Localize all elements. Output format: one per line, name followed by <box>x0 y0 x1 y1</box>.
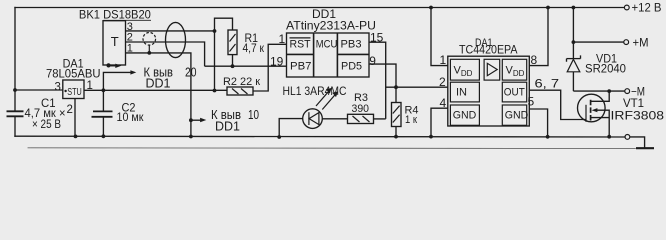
node junction VDD <box>213 29 217 33</box>
svg-text:RST: RST <box>290 39 311 51</box>
capacitor C1 4,7uF 25V <box>7 98 66 131</box>
svg-text:+12 В: +12 В <box>632 1 662 15</box>
svg-text:10: 10 <box>248 108 259 122</box>
wire DA1 input from +12 rail <box>15 89 63 91</box>
wire DD1 pin9 PD5 <box>369 64 396 102</box>
resistor R2 22k <box>223 44 287 95</box>
MCU DD1 ATtiny2313A-PU <box>270 7 384 77</box>
driver DA1 TC4420EPA <box>439 37 559 126</box>
svg-text:HL1 3AR4MC: HL1 3AR4MC <box>283 84 347 98</box>
svg-text:1 к: 1 к <box>405 114 417 126</box>
diode VD1 SR2040 <box>567 6 627 92</box>
svg-text:T: T <box>111 34 119 49</box>
wire +12V top rail <box>15 7 624 9</box>
wire left vertical +12V feed <box>14 8 16 112</box>
drain lead <box>591 91 610 101</box>
wire R2 to RST DD1 pin 1 <box>253 44 287 91</box>
svg-text:390: 390 <box>352 103 370 115</box>
resistor R1 4,7k <box>228 30 265 68</box>
svg-text:PB7: PB7 <box>290 61 312 73</box>
capacitor C2 10uF <box>92 90 145 138</box>
svg-text:9: 9 <box>369 54 376 68</box>
resistor R4 1k <box>392 103 419 139</box>
svg-text:1: 1 <box>440 53 447 67</box>
output terminal -M <box>573 84 645 98</box>
svg-text:PD5: PD5 <box>341 61 362 73</box>
svg-text:MCU: MCU <box>316 39 338 51</box>
wire sensor pin2 DQ <box>126 42 205 66</box>
svg-text:IRF3808: IRF3808 <box>611 110 665 122</box>
wire DD1 pin15 PB3 down to R3 node <box>369 42 386 119</box>
wire PB3/PD5 node to TC4420 IN <box>386 86 448 88</box>
wire TC4420 pin1 VDD to +12 rail <box>431 8 448 66</box>
svg-text:OUT: OUT <box>504 86 525 98</box>
wire LED cathode to ground <box>279 119 303 137</box>
wire TC4420 OUT pins 6,7 to VT1 gate <box>529 90 586 119</box>
LED HL1 3AR4MC <box>277 84 347 139</box>
svg-text:6, 7: 6, 7 <box>535 76 560 90</box>
svg-text:8: 8 <box>531 53 538 67</box>
svg-text:10 мк: 10 мк <box>117 112 145 124</box>
svg-text:78L05ABU: 78L05ABU <box>46 67 101 81</box>
gate bar <box>585 105 587 122</box>
wire jog to R1 top <box>215 18 233 31</box>
svg-text:IN: IN <box>456 86 467 98</box>
svg-text:DD1: DD1 <box>146 76 171 90</box>
body arrow lead <box>597 110 610 137</box>
svg-text:BK1 DS18B20: BK1 DS18B20 <box>79 8 151 22</box>
wire sensor pin3 VDD <box>126 30 215 32</box>
svg-text:−M: −M <box>631 84 645 98</box>
output terminal +12 В <box>624 1 661 15</box>
svg-text:2: 2 <box>67 104 73 116</box>
svg-text:PB3: PB3 <box>341 39 362 51</box>
svg-text:4,7 к: 4,7 к <box>243 43 265 55</box>
svg-text:× 25 В: × 25 В <box>32 119 61 131</box>
ground output terminal and earth symbol <box>625 135 654 149</box>
svg-text:VT1: VT1 <box>623 98 644 110</box>
wire VDD down to R2 line <box>214 31 216 91</box>
svg-text:3: 3 <box>55 82 61 94</box>
MOSFET VT1 IRF3808 <box>578 91 665 139</box>
svg-text:DD1: DD1 <box>215 120 240 134</box>
wire faint separator line bottom <box>28 147 645 150</box>
channel segments <box>590 100 592 121</box>
wire TC4420 pin8 VDD to +12 rail <box>529 8 548 66</box>
svg-text:SR2040: SR2040 <box>585 64 626 76</box>
temperature sensor BK1 DS18B20 <box>79 8 151 68</box>
cable bundle ellipse <box>166 22 186 57</box>
net arrow К выв 20 DD1 <box>103 65 196 90</box>
svg-text:4,7 мк ×: 4,7 мк × <box>25 108 66 120</box>
svg-text:+M: +M <box>633 36 649 50</box>
svg-text:STU: STU <box>67 87 82 98</box>
svg-text:1: 1 <box>279 32 286 46</box>
svg-text:5: 5 <box>528 95 535 109</box>
wire TC4420 pin4 GND to rail <box>431 108 448 136</box>
wire ground bottom rail <box>15 135 625 138</box>
wire DA1 pin2 to ground <box>74 99 76 137</box>
output terminal +M <box>572 36 649 50</box>
svg-text:2: 2 <box>439 75 446 89</box>
net arrow К выв 10 DD1 <box>189 108 259 134</box>
cable shield circle on wire 2 <box>143 33 156 55</box>
wire DQ line to DD1 pin 19 <box>205 65 287 67</box>
source lead <box>591 117 610 119</box>
svg-text:GND: GND <box>453 110 477 122</box>
svg-text:ATtiny2313A-PU: ATtiny2313A-PU <box>286 19 376 33</box>
svg-text:TC4420EPA: TC4420EPA <box>459 44 518 56</box>
wire sensor pin1 GND <box>126 53 191 137</box>
svg-text:GND: GND <box>505 110 529 122</box>
resistor R3 390 <box>348 92 386 123</box>
svg-text:19: 19 <box>270 54 284 68</box>
wire TC4420 pin5 GND to rail <box>529 109 547 137</box>
voltage regulator DA1 78L05ABU <box>13 56 227 138</box>
wire LED anode to R3 <box>322 118 347 120</box>
wire DA1 output +5V line <box>84 89 227 91</box>
sensor internal contact arrow <box>106 63 110 67</box>
